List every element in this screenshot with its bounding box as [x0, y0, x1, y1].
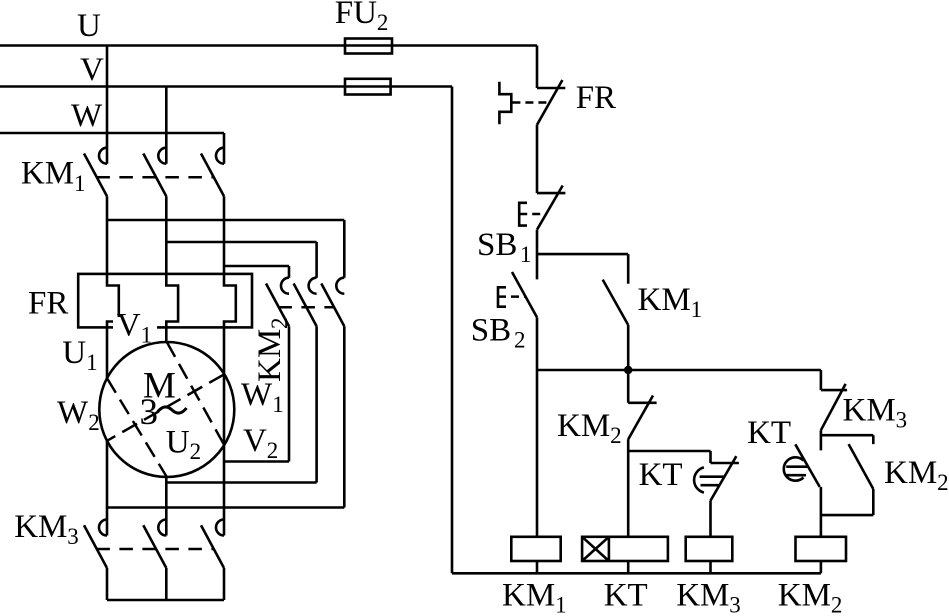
- svg-text:1: 1: [86, 350, 98, 375]
- svg-text:3: 3: [140, 392, 159, 433]
- svg-text:KM: KM: [557, 408, 610, 444]
- svg-text:FU: FU: [335, 0, 377, 31]
- svg-text:1: 1: [691, 297, 703, 322]
- svg-text:V: V: [243, 423, 267, 459]
- svg-text:3: 3: [729, 593, 741, 616]
- svg-text:KM: KM: [14, 509, 67, 545]
- svg-text:U: U: [62, 335, 86, 371]
- svg-text:FR: FR: [28, 286, 68, 322]
- svg-text:2: 2: [831, 593, 843, 616]
- svg-text:KM: KM: [676, 578, 729, 614]
- svg-text:1: 1: [141, 323, 153, 348]
- svg-text:3: 3: [67, 524, 79, 549]
- svg-text:1: 1: [520, 242, 532, 267]
- svg-text:V: V: [117, 308, 141, 344]
- svg-text:2: 2: [514, 327, 526, 352]
- svg-text:2: 2: [937, 470, 949, 495]
- svg-text:FR: FR: [576, 80, 616, 116]
- svg-text:2: 2: [190, 439, 202, 464]
- svg-text:1: 1: [272, 392, 284, 417]
- svg-text:SB: SB: [477, 227, 517, 263]
- svg-text:KM: KM: [843, 393, 896, 429]
- svg-text:W: W: [57, 395, 89, 431]
- svg-text:KT: KT: [604, 578, 648, 614]
- svg-text:SB: SB: [471, 312, 511, 348]
- svg-text:2: 2: [267, 318, 292, 330]
- svg-text:2: 2: [267, 438, 279, 463]
- svg-text:KT: KT: [639, 457, 683, 493]
- svg-text:V: V: [80, 52, 104, 88]
- svg-text:KM: KM: [252, 329, 288, 382]
- svg-text:W: W: [71, 98, 103, 134]
- svg-text:1: 1: [74, 171, 86, 196]
- svg-text:KM: KM: [884, 455, 937, 491]
- svg-text:3: 3: [896, 408, 908, 433]
- svg-text:2: 2: [377, 10, 389, 35]
- svg-text:KM: KM: [778, 578, 831, 614]
- svg-text:KT: KT: [747, 415, 791, 451]
- svg-text:2: 2: [88, 410, 100, 435]
- svg-text:KM: KM: [638, 282, 691, 318]
- svg-text:2: 2: [610, 423, 622, 448]
- svg-text:U: U: [77, 8, 101, 44]
- svg-text:KM: KM: [502, 578, 555, 614]
- svg-text:KM: KM: [21, 156, 74, 192]
- svg-text:U: U: [166, 425, 190, 461]
- svg-text:1: 1: [555, 593, 567, 616]
